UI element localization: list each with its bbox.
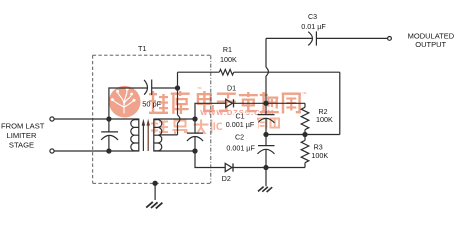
node: R2/R3 midpoint — [303, 132, 307, 136]
wire: 50pF to center-tap node — [152, 87, 178, 89]
wire: secondary bottom lead — [154, 150, 195, 152]
wire: C3 to output terminal — [316, 37, 387, 39]
svg-text:0.001 µF: 0.001 µF — [226, 143, 255, 152]
svg-text:OUTPUT: OUTPUT — [415, 40, 446, 49]
label C2 — [233, 134, 245, 142]
capacitor C1 — [258, 103, 275, 134]
wire: secondary center tap — [160, 134, 178, 136]
svg-text:T1: T1 — [138, 44, 147, 53]
svg-text:™: ™ — [302, 91, 307, 97]
wire: R1 right lead to right rail — [234, 71, 340, 73]
wire: center-tap riser with hop — [178, 72, 180, 135]
node: junction top input — [107, 117, 111, 121]
watermark logo circle — [109, 86, 141, 118]
wire: D2 cathode along bottom rail — [232, 167, 305, 169]
resistor R3 — [301, 135, 309, 168]
wire: D2 branch dropper — [195, 151, 225, 168]
svg-text:50 pF: 50 pF — [142, 100, 161, 109]
node: secondary bottom node — [193, 149, 197, 153]
wire: right rail — [339, 72, 341, 134]
svg-text:0.01 µF: 0.01 µF — [301, 22, 326, 31]
svg-text:0.001 µF: 0.001 µF — [226, 120, 255, 129]
svg-text:100K: 100K — [220, 55, 237, 64]
node: junction bottom input — [107, 149, 111, 153]
capacitor C2 — [258, 135, 275, 168]
node: bottom rail junction — [264, 165, 268, 169]
resistor R1 — [219, 69, 233, 75]
watermark row2 text — [151, 118, 280, 135]
output terminal — [388, 37, 392, 41]
watermark big text row — [149, 91, 301, 114]
capacitor C3 — [308, 31, 316, 45]
svg-text:100K: 100K — [311, 151, 328, 160]
wire: bottom input — [54, 150, 139, 152]
resistor R2 — [301, 103, 309, 134]
node: D1 cathode junction — [264, 101, 268, 105]
label C1 — [234, 112, 246, 120]
wire: D1 cathode to rail — [234, 102, 306, 104]
input terminal bottom — [50, 149, 54, 153]
input terminal top — [50, 117, 54, 121]
shield box T1 (dashed) — [93, 55, 211, 183]
svg-text:D2: D2 — [222, 175, 231, 183]
wire: main rail top with hop over R1 wire — [266, 38, 268, 103]
svg-text:™: ™ — [197, 87, 202, 93]
svg-text:C3: C3 — [308, 13, 317, 21]
ground (output filter) — [258, 168, 272, 193]
svg-text:STAGE: STAGE — [9, 140, 34, 149]
transformer T1 secondary winding — [154, 119, 162, 152]
svg-text:D1: D1 — [227, 85, 236, 93]
wire: secondary top lead — [154, 118, 195, 120]
circuit graphics — [50, 31, 392, 208]
wire: 50pF branch up and across — [109, 88, 147, 119]
wire: output top branch — [266, 37, 312, 39]
node: 50pF junction — [175, 86, 179, 90]
node: shield ground tap — [153, 181, 157, 185]
wire: D1 branch riser — [195, 103, 226, 119]
svg-text:100K: 100K — [316, 115, 333, 124]
node: secondary top node — [193, 117, 197, 121]
transformer T1 core arrow left — [142, 119, 145, 151]
ground (shield) — [146, 183, 162, 208]
capacitor (primary tuning) — [101, 119, 118, 151]
wire: midpoint to R divider — [266, 134, 340, 136]
capacitor (secondary tuning) — [187, 119, 203, 151]
wire: top input — [54, 118, 139, 120]
svg-text:R1: R1 — [223, 46, 232, 54]
svg-text:LIMITER: LIMITER — [7, 131, 37, 140]
svg-text:FROM LAST: FROM LAST — [1, 122, 45, 131]
transformer T1 primary winding — [131, 119, 139, 152]
diode D2 — [225, 163, 233, 171]
transformer T1 core arrow right — [147, 119, 150, 151]
node: C1/C2 midpoint — [264, 132, 268, 136]
capacitor C 50pF — [144, 80, 152, 96]
svg-text:C2: C2 — [235, 134, 244, 142]
diode D1 — [226, 99, 234, 107]
label C1 value — [222, 120, 258, 129]
label C2 value — [223, 143, 258, 152]
wire: R1 left lead — [178, 71, 220, 73]
